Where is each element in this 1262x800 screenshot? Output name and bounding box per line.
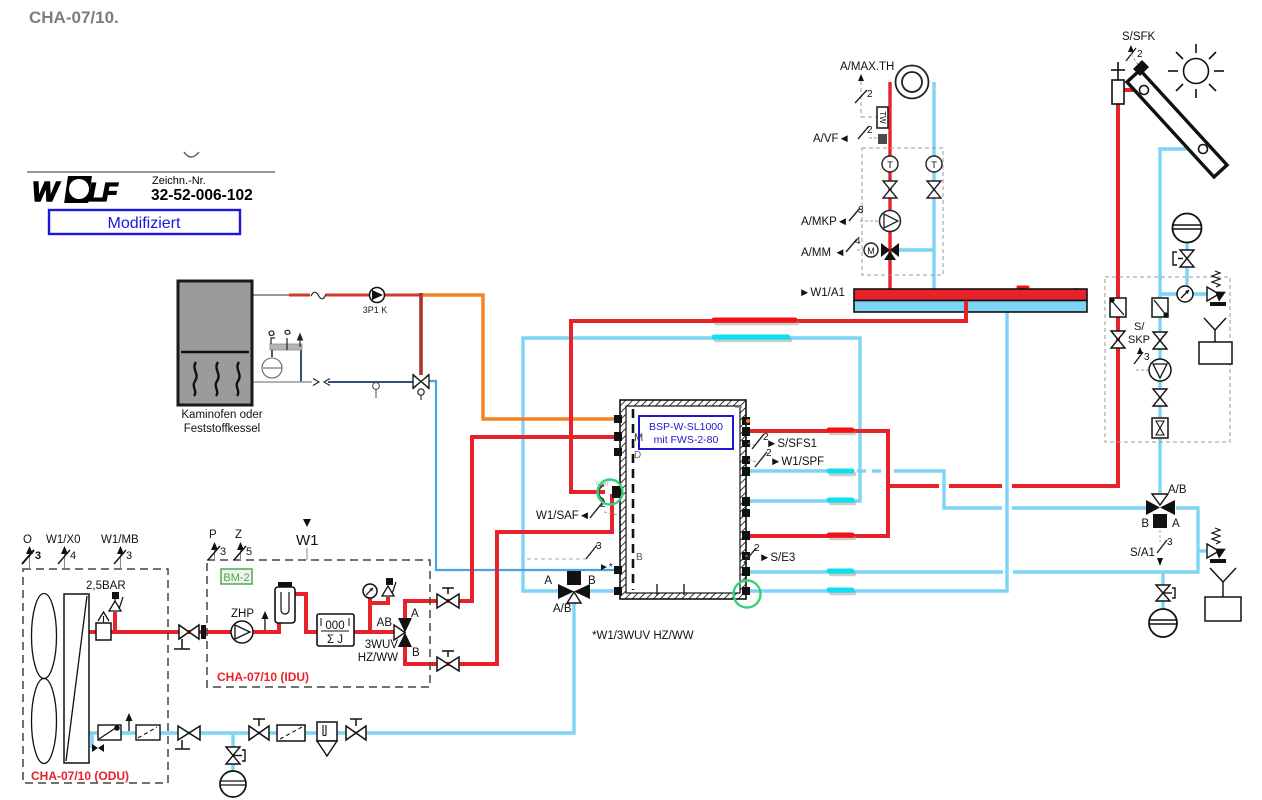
svg-text:A/B: A/B — [1168, 484, 1187, 496]
wire: hp return bottom run — [89, 598, 574, 733]
wire: manifold blue drop to tank bottom — [746, 311, 1007, 591]
check valve red — [1109, 297, 1126, 317]
sensor P — [208, 529, 226, 560]
drain valve below vessel — [1173, 250, 1194, 267]
pump boiler — [363, 288, 388, 316]
svg-text:P: P — [209, 529, 217, 541]
node highlight cyan manifold bar — [1074, 290, 1079, 299]
svg-text:A: A — [1172, 518, 1180, 530]
sensor A/VF — [813, 125, 887, 145]
svg-text:3: 3 — [126, 550, 132, 562]
sensor S/E3 — [744, 543, 795, 564]
wire: solar collector return — [1160, 149, 1199, 500]
wire: drain branch below solar loop — [1161, 572, 1164, 585]
svg-text:Feststoffkessel: Feststoffkessel — [184, 423, 261, 435]
pump ZHP — [231, 608, 254, 643]
svg-text:mit FWS-2-80: mit FWS-2-80 — [654, 434, 719, 446]
vertical vessel IDU — [275, 582, 295, 623]
svg-text:LF: LF — [88, 177, 119, 207]
IDU dashed box — [207, 560, 430, 687]
svg-text:Σ J: Σ J — [327, 634, 343, 646]
node highlight red tank 536 — [829, 533, 852, 538]
svg-text:3: 3 — [596, 541, 602, 552]
circuit dashed box — [862, 148, 943, 275]
thermometer T supply — [882, 156, 898, 172]
thermometer T return — [926, 156, 942, 172]
orange dot right — [746, 419, 750, 423]
sensor Z — [234, 529, 252, 560]
solar expansion vessel — [1173, 214, 1202, 243]
tank flange connection — [596, 481, 622, 500]
TW well — [877, 107, 888, 128]
vent arrow (blue line) — [126, 713, 133, 731]
safety valve 2,5bar — [109, 592, 123, 611]
wire: solar supply horizontal — [888, 484, 939, 488]
gate valve below pump — [1153, 389, 1167, 406]
solar collector — [1127, 60, 1227, 177]
drain valve + vessel at x233 — [220, 747, 246, 797]
svg-text:T: T — [931, 160, 937, 171]
valve shutoff blue 3 — [346, 719, 366, 740]
wire: flange stub — [571, 490, 605, 494]
svg-text:W1/X0: W1/X0 — [46, 534, 81, 546]
svg-text:A: A — [544, 575, 552, 587]
wire: tank right to solar hx top — [746, 431, 888, 536]
svg-text:*W1/3WUV HZ/WW: *W1/3WUV HZ/WW — [592, 630, 694, 642]
IDU inlet flange — [201, 625, 206, 639]
svg-text:Zeichn.-Nr.: Zeichn.-Nr. — [152, 175, 206, 187]
wire: tank lower blue to hp-return valve — [523, 338, 860, 591]
wire: tank mid blue to valve loop bottom — [746, 570, 1003, 573]
svg-text:4: 4 — [855, 236, 861, 247]
svg-text:A: A — [411, 608, 419, 620]
gate valve supply — [883, 181, 897, 198]
svg-text:O: O — [23, 534, 32, 546]
expansion vessel bottom right — [1149, 609, 1177, 637]
sensor O — [22, 534, 41, 569]
wire: tank upper blue to solar valve loop — [746, 471, 1146, 508]
svg-text:W1: W1 — [296, 532, 319, 549]
svg-text:►S/E3: ►S/E3 — [759, 552, 795, 564]
svg-text:W1/SAF◄: W1/SAF◄ — [536, 510, 590, 522]
node highlight cyan tank 591 — [829, 588, 852, 593]
sensor W1/SAF — [536, 499, 617, 522]
svg-text:►W1/A1: ►W1/A1 — [799, 287, 845, 299]
air vent small (boiler) — [285, 330, 290, 350]
wire: boiler supply gray stub — [252, 294, 289, 296]
pump S/SKP — [1149, 359, 1171, 381]
svg-text:3WUV: 3WUV — [365, 639, 399, 651]
valve shutoff blue 1 — [175, 726, 200, 749]
wire: 3WUV B to tank flange — [405, 494, 612, 664]
valve S/A1 A/B — [1141, 484, 1187, 530]
sensor A/MM — [801, 236, 863, 259]
flame 2 — [216, 362, 219, 396]
svg-text:3: 3 — [35, 550, 41, 562]
sensor A/MKP — [801, 205, 878, 228]
wire: ODU to IDU supply — [89, 630, 232, 634]
svg-text:2,5BAR: 2,5BAR — [86, 580, 126, 592]
svg-text:W1/MB: W1/MB — [101, 534, 139, 546]
label A/MAX.TH — [840, 61, 894, 117]
svg-text:3: 3 — [858, 205, 864, 216]
sensor pocket boiler return — [373, 383, 380, 398]
node highlight cyan tank 501 — [829, 498, 852, 503]
wire: vessel to meter — [294, 594, 317, 632]
sensor S/SFK — [1122, 31, 1156, 66]
sensor S/A1 — [1130, 530, 1173, 566]
svg-text:32-52-006-102: 32-52-006-102 — [151, 187, 253, 204]
svg-text:CHA-07/10 (ODU): CHA-07/10 (ODU) — [31, 769, 129, 783]
drain valve below loop — [1156, 585, 1175, 601]
svg-text:S/: S/ — [1134, 321, 1145, 333]
node highlight red tank top — [829, 428, 852, 433]
wire: manifold supply from tank flange — [571, 299, 966, 494]
node highlight red bar tick — [1018, 286, 1028, 289]
safety valve at loop — [1207, 528, 1226, 563]
safety valve solar — [1207, 271, 1226, 306]
flame 3 — [237, 362, 240, 396]
svg-text:4: 4 — [70, 550, 76, 562]
svg-text:SKP: SKP — [1128, 334, 1150, 346]
dirt separator — [317, 722, 337, 756]
expansion vessel boiler — [262, 358, 282, 378]
wire: solar gauge branch — [1160, 292, 1207, 295]
flow meter — [1152, 418, 1168, 438]
check valve blue — [1152, 298, 1169, 318]
svg-text:000: 000 — [325, 620, 344, 632]
svg-text:B: B — [636, 552, 643, 563]
wire: meter to 3WUV — [353, 630, 397, 634]
svg-text:2: 2 — [1137, 49, 1143, 60]
safety valve small (boiler) — [269, 331, 275, 344]
svg-text:B: B — [1141, 518, 1149, 530]
motor M + mixing valve A/MM — [864, 243, 899, 260]
tank stubs left — [614, 415, 622, 595]
wire: ODU safety valve stub — [113, 612, 117, 632]
valve 3WUV HZ/WW — [358, 608, 420, 664]
tank inner bottom ticks — [657, 584, 684, 595]
radio module upper — [1199, 318, 1232, 364]
svg-text:2: 2 — [867, 89, 873, 100]
flame 1 — [194, 362, 197, 396]
wire: heating circuit supply — [888, 82, 891, 291]
svg-text:S/SFK: S/SFK — [1122, 31, 1156, 43]
svg-text:BSP-W-SL1000: BSP-W-SL1000 — [649, 421, 723, 433]
wire: solar valve right loop — [1013, 508, 1198, 572]
svg-text:TW: TW — [878, 111, 887, 124]
safety group bar — [270, 344, 302, 357]
Modifiziert box — [49, 210, 240, 234]
node highlight shadows — [687, 323, 854, 593]
flow arrows boiler return — [313, 379, 330, 386]
node highlight red manifold line — [714, 318, 795, 323]
tank BSP-W-SL1000 — [620, 400, 746, 599]
svg-text:3: 3 — [1144, 352, 1150, 363]
sensor hp-return valve 3 — [527, 541, 613, 573]
svg-text:A/MKP◄: A/MKP◄ — [801, 216, 848, 228]
wire: boiler mix to tank (medium blue) — [429, 381, 620, 570]
wire: boiler supply red — [289, 294, 421, 297]
pump A/MKP — [880, 211, 901, 232]
sun — [1168, 44, 1224, 98]
BM-2 module — [221, 569, 252, 584]
ODU dashed box — [23, 569, 168, 783]
wire: boiler return (navy) — [301, 350, 413, 382]
svg-text:3P1 K: 3P1 K — [363, 305, 388, 315]
wire: heating-circuit return drop — [932, 82, 935, 291]
node green circle flange — [598, 480, 623, 505]
svg-text:A/VF◄: A/VF◄ — [813, 133, 850, 145]
filter dashed (blue line) — [136, 725, 160, 740]
heating consumer circle — [896, 66, 929, 99]
svg-text:3: 3 — [220, 546, 226, 558]
WOLF logo — [32, 176, 119, 207]
pressure gauge IDU — [363, 584, 377, 598]
svg-text:CHA-07/10 (IDU): CHA-07/10 (IDU) — [217, 670, 309, 684]
sensor W1/X0 — [46, 534, 81, 569]
valve shutoff red bottom — [437, 651, 459, 671]
decorative arc — [184, 152, 199, 157]
svg-text:ZHP: ZHP — [231, 608, 254, 620]
safety valve IDU — [382, 578, 396, 596]
svg-text:Kaminofen oder: Kaminofen oder — [181, 409, 262, 421]
sensor W1/MB — [101, 534, 139, 569]
svg-text:2: 2 — [867, 125, 873, 136]
sensor S/SFS1 — [748, 432, 817, 450]
valve shutoff ODU-IDU red — [174, 625, 199, 649]
wire: 3WUV A to tank M — [405, 437, 620, 620]
manifold bars — [854, 289, 1087, 312]
svg-text:Z: Z — [235, 529, 242, 541]
tank top-right tick — [735, 406, 742, 408]
wire: drain tee at x233 — [231, 733, 234, 747]
pressure gauge solar — [1177, 286, 1193, 302]
wire: hp-return valve to tank stub — [587, 589, 620, 592]
node highlight cyan tank 471 — [829, 469, 852, 474]
flex connector on boiler supply — [310, 290, 326, 300]
vent arrow (boiler bar) — [298, 334, 303, 347]
wire: gauge branch IDU — [368, 598, 372, 632]
svg-text:HZ/WW: HZ/WW — [358, 652, 398, 664]
sensor W1/SPF — [748, 448, 824, 468]
node green circle tank bottom — [734, 581, 761, 608]
label W1 — [296, 519, 319, 560]
svg-text:5: 5 — [246, 546, 252, 558]
gate valve return — [927, 181, 941, 198]
wire: boiler return gray part — [252, 381, 312, 383]
svg-text:S/A1: S/A1 — [1130, 547, 1155, 559]
heat meter — [317, 614, 354, 646]
svg-text:AB: AB — [377, 617, 393, 629]
mixing valve boiler — [413, 374, 429, 400]
valve W1/3WUV (tank bottom-left) — [544, 571, 596, 615]
wire: solar expansion vessel stub — [1185, 243, 1188, 250]
filter with check (blue line) — [98, 725, 121, 740]
svg-text:T: T — [887, 160, 893, 171]
gate valve blue line — [1153, 332, 1167, 349]
wire: safety valve branch at solar loop — [1198, 549, 1207, 552]
node highlight cyan tank inner — [685, 585, 698, 589]
filter dashed (main blue) — [277, 725, 305, 741]
svg-text:B: B — [588, 575, 596, 587]
valve shutoff red top — [437, 588, 459, 608]
gate valve red line — [1111, 331, 1125, 348]
wire: IDU pump to vessel — [252, 622, 279, 632]
node highlight cyan tank 572 — [829, 569, 852, 574]
air vent ODU — [96, 612, 111, 640]
svg-text:►W1/SPF: ►W1/SPF — [770, 456, 824, 468]
wire: orange run boiler to tank — [421, 295, 620, 419]
wire: solar vent to collector — [1124, 88, 1141, 92]
svg-text:A/MAX.TH: A/MAX.TH — [840, 61, 894, 73]
svg-text:A/MM ◄: A/MM ◄ — [801, 247, 846, 259]
sensor S/SKP — [1128, 321, 1150, 370]
valve shutoff blue 2 — [249, 719, 269, 740]
tank label box — [639, 416, 733, 449]
boiler Kaminofen — [178, 281, 252, 405]
node highlight cyan upper loop — [714, 335, 788, 340]
svg-text:D: D — [634, 450, 641, 461]
svg-text:►S/SFS1: ►S/SFS1 — [766, 438, 817, 450]
radio module lower — [1205, 568, 1241, 621]
svg-text:BM-2: BM-2 — [223, 572, 249, 584]
svg-text:A/B: A/B — [553, 603, 572, 615]
svg-text:Modifiziert: Modifiziert — [108, 215, 181, 232]
svg-text:CHA-07/10.: CHA-07/10. — [29, 8, 119, 27]
tank stubs right — [742, 417, 750, 595]
solar station dashed box — [1105, 277, 1230, 442]
wire: A/MM bypass — [897, 248, 934, 251]
air vent solar — [1111, 62, 1125, 104]
svg-text:►*: ►* — [599, 562, 613, 573]
manifold red drop — [964, 301, 968, 323]
ODU drain tiny valve — [92, 744, 104, 752]
wire: ODU drain stub — [90, 733, 93, 748]
svg-text:3: 3 — [1167, 537, 1173, 548]
wire: boiler drop dark red — [419, 293, 423, 375]
svg-text:B: B — [412, 647, 420, 659]
fan — [32, 594, 57, 764]
svg-text:M: M — [634, 432, 643, 444]
heat exchanger ODU — [64, 594, 89, 763]
vent arrow IDU — [262, 611, 269, 630]
header rule — [27, 171, 275, 173]
svg-text:M: M — [867, 246, 875, 256]
